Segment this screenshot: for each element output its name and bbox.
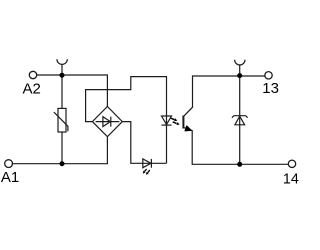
svg-text:A2: A2 bbox=[23, 81, 41, 98]
svg-text:14: 14 bbox=[283, 172, 299, 188]
svg-text:A1: A1 bbox=[1, 169, 19, 186]
svg-text:13: 13 bbox=[262, 80, 279, 97]
